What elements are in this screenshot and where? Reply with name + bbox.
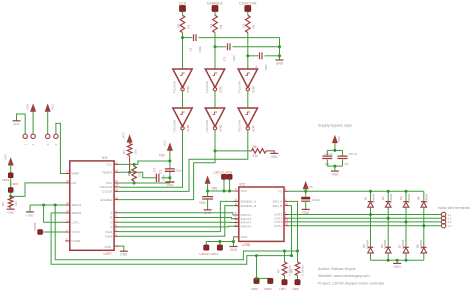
- pin number IC1 INH2: [115, 234, 117, 237]
- wire ENABLE buffered to IC1 ENABLE pin: [119, 130, 215, 200]
- pin name IC2 INPUT3: [241, 221, 252, 225]
- pin number 4: [54, 143, 58, 145]
- svg-text:1N4004: 1N4004: [401, 239, 405, 249]
- junction cap rail 1: [278, 45, 281, 48]
- pin name IC2 INPUT4: [241, 225, 252, 229]
- diode D5: [368, 247, 374, 253]
- inverter IC4A: [173, 69, 192, 91]
- label C2: [189, 47, 193, 51]
- pin number IC1 B: [115, 215, 117, 218]
- svg-text:1N4004: 1N4004: [366, 239, 370, 249]
- svg-text:L297: L297: [104, 252, 112, 256]
- supply arrow VCC R4: [127, 135, 132, 142]
- svg-text:CNTL: CNTL: [72, 221, 80, 225]
- wire OUT2: [289, 217, 442, 219]
- label 10k R1: [176, 23, 180, 28]
- label D6: [380, 244, 384, 248]
- op-amp U2 box L298 IC2: [239, 187, 284, 241]
- svg-text:R5: R5: [127, 172, 131, 176]
- wire CLK buffered to IC1 CW/CCW pin: [119, 130, 183, 187]
- svg-text:74LS14N: 74LS14N: [238, 81, 242, 94]
- svg-text:74LS14N: 74LS14N: [205, 120, 209, 133]
- pad LSP11: [217, 245, 222, 250]
- svg-text:D7: D7: [398, 244, 402, 248]
- svg-text:1N4004: 1N4004: [425, 193, 429, 203]
- junction R5 bottom OSC: [133, 182, 136, 185]
- svg-text:10k: 10k: [242, 23, 246, 28]
- label 1N4004 D4: [425, 193, 429, 203]
- svg-text:ENABLE: ENABLE: [207, 1, 223, 6]
- junction LSP11: [218, 240, 221, 243]
- wire CLK pad to R1: [182, 11, 184, 15]
- label IC4F: [251, 125, 255, 132]
- pin stub IC1 OSC: [114, 182, 119, 184]
- wire LSP13 to +5V: [223, 179, 225, 191]
- svg-text:D6: D6: [380, 244, 384, 248]
- wire GND rail left: [206, 241, 233, 243]
- label 1N4004 D8: [419, 239, 423, 249]
- terminal X1-3: [441, 220, 445, 224]
- label VDD: [26, 103, 30, 110]
- label LSP10: [264, 287, 272, 291]
- pin number IC1 A: [115, 210, 117, 213]
- pin stub IC2 ENABLE_B: [234, 205, 239, 207]
- label LSP7: [279, 287, 286, 291]
- wire to R6: [215, 150, 250, 152]
- capacitor C6: [322, 156, 332, 158]
- label LSP13 LSP14: [214, 170, 233, 174]
- wire SENS2 bus: [51, 213, 291, 264]
- junction CNTL tap: [42, 204, 45, 207]
- wire OUT3: [289, 221, 442, 223]
- pin number IC1 H/F: [66, 180, 69, 183]
- svg-text:R3: R3: [1, 202, 5, 206]
- wire to C7: [342, 150, 344, 156]
- pin name IC1 RESET: [102, 171, 112, 175]
- label VCC +5V arrow: [162, 139, 166, 146]
- svg-text:IC2: IC2: [240, 183, 246, 187]
- pin stub IC1 D: [114, 226, 119, 228]
- svg-text:1-2: 1-2: [448, 217, 452, 221]
- label 1N4004 D2: [389, 193, 393, 203]
- pin name VREF: [72, 172, 80, 176]
- wire connector pin2 to VDD: [32, 111, 34, 134]
- pad LSP12: [204, 245, 209, 250]
- pin name IC2 OUT2: [274, 217, 282, 221]
- pin stub IC1 SYNC: [65, 231, 70, 233]
- label 10k R3: [14, 201, 18, 206]
- svg-text:SYNC: SYNC: [33, 221, 37, 230]
- wire C4 to gnd node: [161, 177, 170, 179]
- svg-text:LSP10: LSP10: [264, 287, 272, 291]
- junction VS: [304, 190, 307, 193]
- pad LSP1: [8, 173, 13, 178]
- wire R3 to ground: [10, 207, 12, 209]
- label 1N4004 D5: [366, 239, 370, 249]
- svg-text:C4: C4: [152, 168, 156, 172]
- label C7: [345, 162, 349, 166]
- junction cap rail 2: [278, 54, 281, 57]
- svg-text:Website: www.robotsoguy.com: Website: www.robotsoguy.com: [318, 274, 370, 278]
- label ENABLE: [207, 1, 223, 6]
- svg-text:R7: R7: [276, 269, 280, 273]
- wire LSP2 to R3: [10, 192, 12, 196]
- label D7: [398, 244, 402, 248]
- svg-text:R2: R2: [219, 24, 223, 28]
- svg-text:VREF: VREF: [72, 172, 80, 176]
- pin name IC2 ENABLE_B: [241, 204, 257, 208]
- label LSP8: [292, 287, 299, 291]
- label IC2: [240, 183, 246, 187]
- wire LSP1 to LSP2: [10, 178, 12, 188]
- svg-text:OUT4: OUT4: [274, 224, 282, 228]
- svg-text:74LS14N: 74LS14N: [238, 120, 242, 133]
- connector pin 4: [54, 134, 58, 138]
- pin number IC2 SEN_A: [285, 199, 287, 202]
- svg-text:CLOCK: CLOCK: [102, 190, 112, 194]
- pin name IC1 CLOCK: [102, 190, 112, 194]
- pin number 1: [23, 143, 27, 145]
- pad LSP8: [295, 280, 300, 285]
- pin number IC2 VS: [285, 189, 287, 192]
- label 1N4004 D6: [383, 239, 387, 249]
- pin stub IC1 C: [114, 221, 119, 223]
- pin stub IC2 ENABLE_A: [234, 200, 239, 202]
- wire INH2 to ENABLE_B: [119, 206, 239, 237]
- pin stub IC2 VS: [284, 190, 289, 192]
- wire SENS1 to ground: [29, 205, 31, 212]
- resistor RS2: [295, 262, 300, 276]
- pin number IC1 D: [115, 224, 117, 227]
- label LSP2: [11, 182, 19, 186]
- connector pin 3: [46, 134, 50, 138]
- wire VS rail to diodes: [306, 190, 424, 192]
- svg-text:VCC: VCC: [122, 131, 126, 138]
- capacitor C1 bypass IC2: [202, 197, 213, 199]
- junction ENABLE RC tap: [214, 45, 217, 48]
- wire gnd rail to ground: [396, 260, 398, 263]
- label 10k R4: [134, 149, 138, 154]
- svg-text:IC4B: IC4B: [186, 125, 190, 132]
- wire C1 to ground: [207, 199, 209, 209]
- svg-text:D4: D4: [417, 196, 421, 200]
- pin name IC1 CW/CCW: [99, 185, 112, 189]
- pin name SYNC: [72, 230, 81, 234]
- pin name IC1 A: [110, 211, 112, 215]
- supply arrow VCC bypass: [332, 136, 337, 143]
- wire A to INPUT1: [119, 213, 239, 215]
- pad SYNC: [38, 230, 43, 235]
- svg-text:GND: GND: [13, 122, 19, 126]
- inverter IC4B: [173, 108, 192, 130]
- wire R5 to OSC line: [133, 181, 135, 183]
- junction gnd rail 1: [387, 259, 390, 262]
- pin stub IC2 INPUT2: [234, 218, 239, 220]
- label IC4D: [219, 124, 223, 132]
- svg-text:LSP1: LSP1: [2, 178, 10, 182]
- svg-text:GND: GND: [230, 248, 238, 252]
- label 10k R2: [209, 23, 213, 28]
- svg-text:INH1: INH1: [106, 230, 113, 234]
- svg-text:GND: GND: [331, 173, 339, 177]
- label +5V IC2: [211, 186, 218, 190]
- wire to cap C2: [183, 37, 193, 39]
- wire IC4A out to IC4B in: [182, 91, 184, 108]
- label 100n C3: [232, 55, 236, 62]
- label 0.5Ohm RS1: [288, 264, 292, 275]
- resistor R1: [180, 15, 185, 32]
- pin stub IC1 INH2: [114, 235, 119, 237]
- label 74LS14N IC4C: [205, 81, 209, 94]
- svg-text:RESET: RESET: [102, 171, 112, 175]
- pin stub IC1 VCC: [114, 163, 119, 165]
- wire connector pin1 to GND: [17, 114, 26, 134]
- wire D8 to gnd rail: [423, 253, 425, 260]
- svg-text:Project: L297/8 stepper motor: Project: L297/8 stepper motor controller: [318, 281, 385, 285]
- resistor R2: [213, 15, 218, 32]
- svg-text:D3: D3: [399, 196, 403, 200]
- pin stub IC2 GND: [234, 236, 239, 238]
- pin stub IC1 CNTL: [65, 221, 70, 223]
- pin number IC1 HOME: [66, 238, 68, 241]
- label terminal 1-2: [448, 217, 452, 221]
- inverter IC4D: [205, 108, 224, 130]
- ground IC2 GND: [230, 247, 238, 252]
- svg-text:VS: VS: [278, 190, 282, 194]
- label 100nF C6: [324, 152, 333, 156]
- pin name IC1 ENABLE: [101, 198, 113, 202]
- ground input caps: [276, 60, 284, 65]
- wire RESET: [119, 172, 156, 178]
- pin name IC2 VS: [278, 190, 282, 194]
- svg-text:100 nF: 100 nF: [324, 152, 333, 156]
- svg-text:D1: D1: [363, 196, 367, 200]
- pin number IC2 VCC: [235, 188, 237, 191]
- ground SENS1: [26, 212, 34, 217]
- svg-text:motor wire terminals: motor wire terminals: [438, 206, 471, 210]
- svg-text:R8: R8: [289, 269, 293, 273]
- wire +5V down: [169, 151, 171, 169]
- pin name IC1 INH2: [106, 235, 113, 239]
- junction C4 gnd side: [168, 176, 171, 179]
- svg-text:A: A: [110, 211, 112, 215]
- diode D7: [403, 247, 409, 253]
- pin name IC1 GND: [104, 245, 112, 249]
- junction gnd rail 3: [405, 259, 408, 262]
- inverter IC4F: [238, 108, 257, 130]
- svg-text:10k: 10k: [209, 23, 213, 28]
- text website: [318, 274, 370, 278]
- label D3: [399, 196, 403, 200]
- svg-text:1N4004: 1N4004: [371, 193, 375, 203]
- pin stub IC2 OUT4: [284, 225, 289, 227]
- wire D2 through outs: [387, 207, 389, 247]
- pin stub IC2 INPUT4: [234, 225, 239, 227]
- label 100n C1: [199, 201, 206, 205]
- pin number IC1 OSC: [115, 180, 118, 183]
- junction CLK RC tap: [181, 36, 184, 39]
- pad CW/CCW: [245, 6, 251, 12]
- pin name IC2 SEN_A: [272, 200, 282, 204]
- wire connector pin3 to VCC: [47, 111, 49, 134]
- svg-text:GND: GND: [120, 253, 128, 257]
- wire D1 through outs: [370, 207, 372, 247]
- junction divider: [9, 195, 12, 198]
- ground connector: [13, 121, 21, 126]
- label D8: [415, 244, 419, 248]
- label 0.5Ohm RS2: [301, 264, 305, 275]
- svg-text:VS: VS: [309, 185, 313, 189]
- label R8: [289, 269, 293, 273]
- svg-text:VCC: VCC: [4, 153, 8, 160]
- svg-text:INPUT4: INPUT4: [241, 225, 252, 229]
- capacitor C7: [338, 156, 348, 158]
- svg-text:VCC: VCC: [162, 139, 166, 146]
- wire CW/CCW pad to R9: [247, 11, 249, 15]
- capacitor C3 bypass: [165, 169, 175, 171]
- label R5: [127, 172, 131, 176]
- svg-text:GND: GND: [7, 211, 15, 215]
- pin number IC1 CNTL: [66, 220, 69, 223]
- pin number 2: [31, 143, 35, 145]
- label 100uF C7: [349, 152, 358, 156]
- pin number IC1 VCC: [115, 162, 118, 165]
- svg-text:VCC: VCC: [106, 163, 113, 167]
- label IC4C: [219, 85, 223, 93]
- pin number IC2 OUT1: [285, 212, 287, 215]
- pin name IC2 OUT1: [274, 213, 282, 217]
- svg-text:100n: 100n: [232, 55, 236, 62]
- pin name IC2 INPUT1: [241, 213, 252, 217]
- svg-text:+5V: +5V: [211, 186, 218, 190]
- junction SENS1 down: [54, 204, 57, 207]
- pin name IC1 B: [110, 216, 112, 220]
- pin number IC2 ENABLE_A: [235, 199, 237, 202]
- svg-text:IC4F: IC4F: [251, 125, 255, 132]
- connector pin 1: [23, 134, 27, 138]
- wire IC4E out to IC4F in: [247, 91, 249, 108]
- text author: [318, 267, 355, 271]
- pin stub IC1 VREF: [65, 173, 70, 175]
- junction +5V VCC line: [168, 160, 171, 163]
- svg-text:GND: GND: [167, 183, 175, 187]
- wire SENS2: [51, 212, 65, 214]
- wire VS arrow stem: [305, 189, 307, 191]
- text project: [318, 281, 385, 285]
- wire +5V to IC2 VCC: [208, 190, 235, 192]
- pin name IC2 SEN_B: [272, 204, 282, 208]
- ground IC1 GND pin: [120, 251, 128, 256]
- svg-text:GND: GND: [394, 265, 402, 269]
- wire OUT4: [289, 225, 442, 227]
- label LSP1: [2, 178, 10, 182]
- label 51k: [253, 154, 259, 158]
- svg-text:100 uF: 100 uF: [349, 152, 358, 156]
- terminal X1-1: [441, 212, 445, 216]
- svg-text:51k: 51k: [253, 154, 259, 158]
- svg-text:VDD: VDD: [26, 103, 30, 110]
- wire to LSP9 LSP10: [257, 256, 271, 279]
- label 74LS14N IC4F: [238, 120, 242, 133]
- svg-text:GND: GND: [104, 245, 112, 249]
- pin stub IC1 A: [114, 212, 119, 214]
- wire R9 to inverter IC4E: [247, 33, 249, 70]
- wire to LSP12: [205, 242, 207, 246]
- supply arrow +5V IC2: [205, 176, 210, 183]
- ground bypass: [331, 171, 339, 176]
- svg-text:IC4A: IC4A: [186, 86, 190, 93]
- label L298: [242, 243, 250, 247]
- pin stub IC2 OUT1: [284, 214, 289, 216]
- label 10k R9: [242, 23, 246, 28]
- svg-text:1N4004: 1N4004: [407, 193, 411, 203]
- wire D5 to gnd rail: [370, 253, 372, 260]
- capacitor C2: [194, 34, 197, 41]
- label R9: [252, 24, 256, 28]
- wire VS to C10: [305, 191, 307, 196]
- wire OSC to ground node: [119, 182, 170, 184]
- svg-text:2-1: 2-1: [448, 220, 452, 224]
- wire VS rail to D2: [387, 191, 389, 201]
- pin stub IC1 GND: [114, 245, 119, 247]
- pin number IC1 CLOCK: [115, 189, 118, 192]
- svg-text:GND: GND: [241, 235, 249, 239]
- pin number IC2 OUT3: [285, 219, 288, 222]
- pin name CNTL: [72, 221, 80, 225]
- label L297: [104, 252, 112, 256]
- wire to C6: [326, 150, 328, 156]
- wire D7 to gnd rail: [405, 253, 407, 260]
- label R6: [253, 145, 257, 149]
- svg-text:10k: 10k: [176, 23, 180, 28]
- wire +5V IC2 down: [207, 184, 209, 197]
- pin number IC1 RESET: [115, 170, 118, 173]
- junction SEN_A line: [296, 250, 299, 253]
- svg-text:R1: R1: [186, 24, 190, 28]
- wire VS pin: [289, 190, 306, 192]
- pin name IC1 INH1: [106, 230, 113, 234]
- svg-text:GND: GND: [27, 213, 35, 217]
- wire IC2 GND pin down: [233, 237, 236, 246]
- pin stub IC2 SEN_A: [284, 200, 289, 202]
- wire CNTL: [44, 205, 66, 222]
- svg-text:IC4C: IC4C: [219, 85, 223, 93]
- wire R1 to inverter IC4A: [182, 33, 184, 70]
- pin stub IC2 OUT2: [284, 217, 289, 219]
- junction col3 OUT3: [405, 220, 408, 223]
- supply arrow VCC divider: [8, 158, 13, 165]
- svg-text:100n: 100n: [264, 64, 268, 71]
- pin name H/F: [72, 181, 77, 185]
- wire SEN_B down: [289, 206, 292, 256]
- label 22k R5: [138, 172, 142, 177]
- svg-text:74LS14N: 74LS14N: [172, 120, 176, 133]
- pad LSP14: [227, 174, 232, 179]
- svg-text:100n: 100n: [198, 45, 202, 52]
- wire IC1 VCC pin to +5V: [119, 161, 170, 164]
- label 100n C4: [161, 174, 165, 181]
- svg-text:+5V: +5V: [159, 153, 166, 157]
- pin number IC1 ENABLE: [115, 197, 118, 200]
- svg-text:74LS14N: 74LS14N: [172, 81, 176, 94]
- junction LSP pads line: [255, 254, 258, 257]
- connector pin 2: [31, 134, 35, 138]
- pin number IC1 SENS1: [66, 202, 69, 205]
- svg-text:SEN_B: SEN_B: [272, 204, 282, 208]
- label 100n C2: [198, 45, 202, 52]
- lead R4 to RESET: [129, 156, 131, 173]
- label VCC bypass: [337, 135, 341, 142]
